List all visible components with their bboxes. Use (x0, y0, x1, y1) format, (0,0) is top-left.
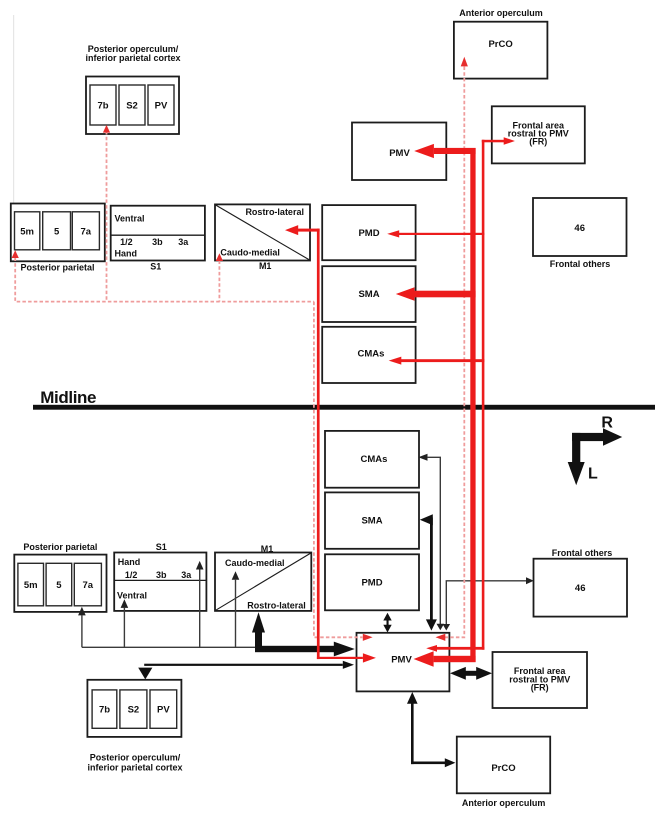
box PMD (bottom) (325, 554, 419, 610)
box SMA (top) (322, 266, 415, 322)
box PrCO (top) (454, 22, 548, 79)
svg-text:PMD: PMD (358, 228, 379, 239)
R/L axis (568, 414, 623, 485)
box FR (bottom) (493, 652, 588, 708)
wire red thin arm into PMV (bottom) (437, 647, 485, 650)
arrow black into SMA right edge (bottom) (420, 514, 433, 525)
divider S1 (top) (111, 234, 205, 236)
divider S1 (bottom) (114, 579, 206, 581)
arrow black up into PMV bottom (from PrCO) (407, 692, 418, 704)
svg-text:(FR): (FR) (531, 682, 549, 692)
wire red M1 line top arm (298, 229, 320, 232)
box S2 (top) (119, 85, 145, 125)
svg-text:(FR): (FR) (529, 137, 547, 147)
arrow red thick into PMV (bottom) (414, 651, 434, 666)
diagonal M1 (top) (216, 205, 310, 260)
svg-text:PMV: PMV (389, 148, 410, 159)
arrow black into PMV left (from S2) (343, 661, 354, 669)
wire red thick vertical bundle (470, 148, 475, 662)
box CMAs (top) (322, 327, 415, 383)
arrow black thin into CMAs right edge (bottom) (418, 454, 427, 461)
box S1 (top) (111, 206, 205, 261)
box S2 (bottom) (120, 690, 147, 728)
box M1 (bottom) (215, 553, 311, 611)
wire red thin arm into PMD (top) (399, 233, 484, 235)
svg-text:5m: 5m (24, 580, 38, 591)
box SMA (bottom) (325, 492, 419, 548)
svg-text:3a: 3a (181, 570, 192, 580)
arrow black into PMV right edge (from FR) (450, 667, 466, 680)
box posterior operculum (top) (86, 77, 179, 135)
svg-text:PrCO: PrCO (488, 39, 512, 50)
arrow red into PMD (top) (387, 230, 399, 237)
wire branch up into M1 caudo-medial (bottom) (235, 580, 237, 648)
wire red dashed down to PMV (bottom) (314, 302, 363, 638)
wire red thin vertical bundle (482, 140, 485, 650)
svg-text:Hand: Hand (115, 249, 138, 259)
arrow black up into PMD bottom (383, 613, 391, 621)
arrow black thick M1-PMV : head up into M1 (bottom) (252, 612, 265, 632)
arrow red dashed up into PrCO (top) (461, 57, 468, 67)
wire red thick arm into PMV (bottom) (434, 656, 476, 662)
svg-text:CMAs: CMAs (361, 454, 388, 465)
box 5 (bottom) (46, 563, 72, 606)
box 7a (top) (72, 212, 99, 250)
svg-text:inferior parietal cortex: inferior parietal cortex (85, 53, 180, 63)
wire black thin CMAs-PMV (427, 457, 440, 624)
svg-text:7b: 7b (99, 705, 110, 716)
box 5m (top) (15, 212, 40, 250)
faint left margin line (13, 15, 14, 203)
svg-text:Anterior operculum: Anterior operculum (459, 8, 543, 18)
svg-text:Caudo-medial: Caudo-medial (225, 558, 285, 568)
svg-text:SMA: SMA (361, 515, 382, 526)
arrow black thin into 46 left edge (bottom) (526, 577, 534, 584)
svg-text:R: R (601, 414, 613, 431)
arrow red thick into PMV (top) (414, 144, 434, 158)
svg-text:Hand: Hand (118, 557, 141, 567)
box 5m (bottom) (18, 563, 44, 606)
wire red M1 line vertical (317, 229, 320, 659)
arrow red dashed into 7b (top) (103, 125, 110, 133)
arrow red dashed into PMV top-right (bottom) (436, 634, 446, 641)
arrow red dashed into posterior parietal (top) (12, 250, 19, 258)
midline (33, 405, 655, 410)
box posterior parietal (top) (11, 204, 105, 262)
svg-text:7a: 7a (83, 580, 94, 591)
box PV (bottom) (150, 690, 177, 728)
svg-text:7b: 7b (97, 100, 108, 111)
box 7b (top) (90, 85, 116, 125)
arrow black down into PMV top (from PMD) (383, 625, 391, 633)
svg-text:Anterior operculum: Anterior operculum (462, 798, 546, 808)
wire black thin PMV-to-parietal branch bus (bottom) (82, 646, 258, 648)
wire black SMA-PMV vertical (430, 518, 433, 621)
svg-text:PV: PV (157, 705, 170, 716)
svg-text:PMD: PMD (361, 577, 382, 588)
box posterior operculum (bottom) (87, 680, 181, 737)
svg-text:PMV: PMV (391, 654, 412, 665)
arrow black thin down into PMV top (from 46) (443, 624, 451, 631)
arrow red into M1 (top) (285, 225, 298, 235)
svg-text:SMA: SMA (358, 289, 379, 300)
arrow red thin into PMV (bottom) (426, 645, 437, 652)
svg-text:1/2: 1/2 (125, 570, 138, 580)
svg-text:3a: 3a (178, 237, 189, 247)
wire red thick arm into SMA (top) (415, 291, 476, 298)
svg-text:46: 46 (574, 223, 585, 234)
wire red dashed up to 7b (top) (106, 131, 108, 302)
box PMV (top) (352, 123, 446, 181)
wire red thin arm into CMAs (top) (401, 359, 484, 362)
arrow red into FR (top) (504, 137, 515, 145)
box 7b (bottom) (92, 690, 117, 728)
svg-text:Rostro-lateral: Rostro-lateral (247, 600, 306, 610)
svg-text:Ventral: Ventral (117, 590, 147, 600)
svg-text:Caudo-medial: Caudo-medial (220, 248, 280, 258)
wire black thick M1-PMV horizontal (255, 646, 335, 652)
wire branch up into S1 ventral (bottom) (123, 608, 125, 648)
box 5 (top) (43, 212, 71, 250)
arrow red dashed into M1 (top) (216, 253, 223, 261)
svg-text:S2: S2 (128, 705, 140, 716)
box PMV (bottom) (357, 633, 450, 692)
svg-text:5: 5 (56, 580, 62, 591)
svg-text:5m: 5m (20, 227, 34, 238)
wire red M1 line bottom arm (317, 657, 363, 659)
svg-text:7a: 7a (81, 227, 92, 238)
arrow red dashed into PMV top-left (bottom) (363, 634, 373, 641)
arrow red thick into SMA (top) (396, 287, 415, 300)
svg-text:L: L (588, 466, 598, 483)
arrow black down into S2 operculum (bottom) (138, 668, 152, 680)
svg-text:Frontal others: Frontal others (550, 259, 611, 269)
box PrCO (bottom) (457, 737, 550, 794)
wire black PMD-PMV double arrow shaft (387, 618, 389, 626)
svg-text:3b: 3b (152, 237, 163, 247)
svg-text:46: 46 (575, 583, 586, 594)
svg-text:inferior parietal cortex: inferior parietal cortex (87, 763, 182, 773)
svg-text:Posterior parietal: Posterior parietal (20, 263, 94, 273)
wire red thick arm into PMV (top) (434, 148, 476, 154)
svg-text:3b: 3b (156, 570, 167, 580)
arrow red into PMV left (bottom, from M1 line) (363, 653, 376, 662)
svg-text:Frontal others: Frontal others (552, 548, 613, 558)
svg-text:S1: S1 (150, 262, 161, 272)
wire black S2-PMV horizontal (144, 664, 343, 666)
arrow black into PrCO left edge (bottom) (445, 758, 456, 767)
svg-text:Midline: Midline (40, 388, 96, 407)
svg-text:S1: S1 (156, 542, 167, 552)
box PMD (top) (322, 205, 415, 260)
wire red dashed PrCO line (445, 67, 464, 638)
wire red dashed up to M1 (top) (218, 261, 220, 302)
svg-text:5: 5 (54, 227, 60, 238)
arrow red into CMAs (top) (389, 357, 402, 365)
box CMAs (bottom) (325, 431, 419, 488)
box M1 (top) (215, 204, 310, 260)
wire branch up into S1 3a (bottom) (199, 569, 201, 647)
arrow black thick into PMV left (from M1) (334, 642, 355, 657)
wire black thin 46-PMV (446, 581, 526, 624)
wire branch up into 7a (bottom) (81, 615, 83, 647)
svg-text:M1: M1 (259, 261, 272, 271)
svg-text:Posterior operculum/: Posterior operculum/ (90, 753, 181, 763)
wire black PMV-PrCO horizontal (411, 762, 445, 765)
svg-text:Posterior parietal: Posterior parietal (23, 542, 97, 552)
box 46 (bottom) (534, 559, 628, 617)
svg-text:PrCO: PrCO (491, 763, 515, 774)
arrow black thin down into PMV top (from CMAs) (437, 624, 445, 631)
svg-text:Rostro-lateral: Rostro-lateral (245, 207, 304, 217)
wire black thick PMV-FR shaft (463, 671, 479, 676)
svg-text:CMAs: CMAs (358, 348, 385, 359)
diagonal M1 (bottom) (216, 553, 311, 610)
svg-text:1/2: 1/2 (120, 237, 133, 247)
box FR (top) (492, 106, 585, 163)
box 46 (top) (533, 198, 627, 256)
wire red thin arm into FR (top) (482, 140, 505, 143)
arrow black down into PMV top (from SMA bottom) (426, 619, 437, 630)
svg-text:Ventral: Ventral (115, 214, 145, 224)
box PV (top) (148, 85, 174, 125)
wire black PMV-PrCO vertical (411, 700, 414, 764)
box S1 (bottom) (114, 553, 206, 611)
svg-text:PV: PV (155, 100, 168, 111)
box 7a (bottom) (74, 563, 101, 606)
arrow black into FR left edge (from PMV) (476, 667, 492, 680)
svg-text:S2: S2 (126, 100, 138, 111)
wire red dashed parietal network (top-left) (15, 258, 314, 302)
wire black thick M1-PMV vertical (255, 628, 262, 652)
box posterior parietal (bottom) (14, 555, 106, 612)
